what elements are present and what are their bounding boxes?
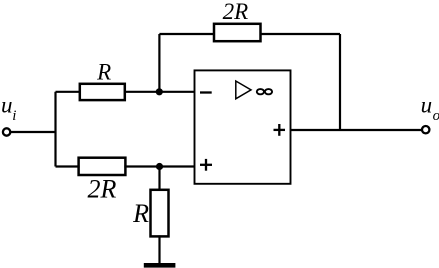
- svg-text:2R: 2R: [223, 0, 249, 24]
- svg-text:o: o: [433, 108, 439, 124]
- svg-text:u: u: [421, 93, 433, 118]
- svg-text:2R: 2R: [88, 175, 117, 204]
- svg-text:R: R: [132, 199, 149, 228]
- svg-text:i: i: [12, 108, 16, 124]
- svg-text:R: R: [96, 59, 111, 84]
- svg-text:u: u: [1, 92, 13, 117]
